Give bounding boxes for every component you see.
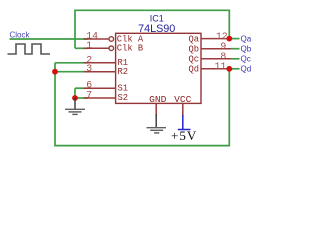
wire Qa out (229, 38, 239, 40)
pin 9 stub Qb (201, 48, 231, 50)
svg-text:Qd: Qd (188, 65, 199, 75)
wire: ClkB horizontal (75, 47, 88, 49)
svg-text:S1: S1 (118, 83, 129, 93)
pin 2 stub R1 (84, 62, 117, 64)
svg-text:Qa: Qa (188, 35, 199, 45)
pin 8 stub Qc (201, 58, 231, 60)
svg-text:+5V: +5V (171, 128, 197, 143)
wire: S2 horizontal (75, 97, 88, 99)
pin 1 bubble (109, 46, 114, 51)
wire Qd out (229, 68, 239, 70)
svg-text:S2: S2 (118, 93, 129, 103)
clock waveform symbol (8, 44, 51, 54)
ground symbol right (147, 114, 167, 133)
wire: R1 horizontal (55, 62, 88, 64)
pin 1 stub ClkB (84, 47, 109, 49)
pin 14 bubble (109, 37, 114, 42)
junction dot Qa (226, 36, 232, 42)
wire: R2 horizontal (55, 71, 88, 73)
svg-text:74LS90: 74LS90 (138, 23, 175, 35)
svg-text:Qb: Qb (188, 45, 199, 55)
svg-text:Clock: Clock (10, 30, 31, 39)
wire: Clock net (10, 38, 89, 40)
wire: top feedback Qa to ClkB (75, 10, 229, 48)
pin GND stub (155, 103, 157, 116)
wire Qc out (231, 58, 240, 60)
pin 11 stub Qd (201, 68, 230, 70)
ground symbol left (65, 98, 85, 114)
junction dot Qd (226, 66, 232, 72)
pin VCC stub (182, 103, 184, 116)
svg-text:VCC: VCC (174, 94, 192, 105)
svg-text:R2: R2 (118, 67, 129, 77)
wire: S1 horizontal (75, 87, 88, 89)
svg-text:1: 1 (86, 40, 92, 51)
wire: left vertical R net to bottom (55, 63, 229, 146)
svg-text:Qa: Qa (241, 34, 252, 43)
svg-text:Qc: Qc (188, 55, 199, 65)
pin 3 stub R2 (84, 71, 117, 73)
svg-text:3: 3 (86, 63, 92, 74)
pin 12 stub Qa (201, 38, 230, 40)
wire: S vertical (74, 88, 76, 98)
svg-text:Qd: Qd (241, 65, 252, 74)
IC IC1 74LS90 body (116, 33, 201, 103)
svg-text:11: 11 (215, 61, 227, 72)
svg-text:GND: GND (149, 94, 167, 105)
wire Qb out (231, 48, 240, 50)
junction dot R2 (52, 69, 58, 75)
pin 6 stub S1 (84, 87, 117, 89)
svg-text:Qb: Qb (241, 45, 252, 54)
+5V power symbol (178, 115, 191, 130)
svg-text:Clk B: Clk B (117, 44, 143, 54)
pin 14 stub ClkA (84, 38, 109, 40)
pin 7 stub S2 (84, 97, 117, 99)
junction dot S2 (72, 95, 78, 101)
svg-text:Qc: Qc (241, 55, 251, 64)
svg-text:7: 7 (86, 90, 92, 101)
